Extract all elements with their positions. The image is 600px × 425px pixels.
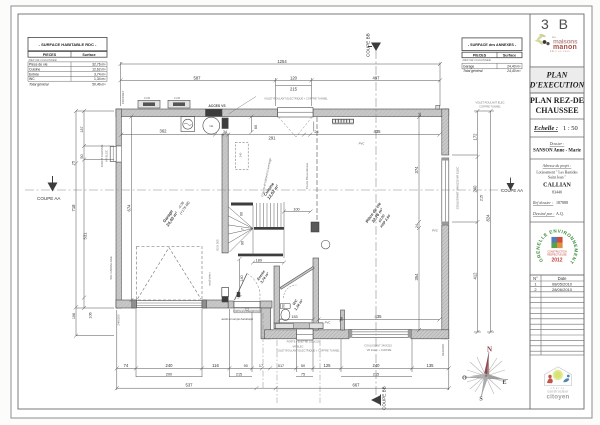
svg-text:D'EXECUTION: D'EXECUTION (529, 81, 586, 90)
svg-text:354: 354 (414, 273, 419, 281)
top wall kitchen-left section (222, 109, 278, 117)
svg-text:32,76 m²: 32,76 m² (92, 63, 106, 67)
svg-text:Pièce de vie: Pièce de vie (29, 63, 48, 67)
svg-text:Saint Jean ": Saint Jean " (548, 176, 566, 180)
svg-text:412: 412 (472, 272, 477, 280)
left wall garage window (110, 146, 121, 162)
svg-text:100X45 CHASSIS: 100X45 CHASSIS (100, 145, 104, 168)
toilet (280, 304, 290, 321)
garage door dashed leaf (137, 247, 203, 301)
svg-text:VOLET ROULANT ELEC: VOLET ROULANT ELEC (475, 101, 504, 105)
small coffre box top right wall (436, 105, 440, 109)
svg-text:PORTE ENTREE 100X215: PORTE ENTREE 100X215 (233, 311, 261, 313)
svg-text:ACCES VS: ACCES VS (208, 104, 226, 108)
top chain row3 small 215 (276, 84, 312, 86)
svg-text:24,40 m²: 24,40 m² (506, 69, 521, 73)
svg-text:VOLET ROULANT ELECTRIQUE + COF: VOLET ROULANT ELECTRIQUE + COFFRE TUNNEL (276, 349, 340, 353)
svg-text:Dossier :: Dossier : (549, 141, 565, 146)
citoyen logo (545, 367, 572, 401)
WC door swing (284, 285, 297, 298)
svg-text:PLAN: PLAN (547, 71, 569, 80)
svg-text:240: 240 (166, 363, 174, 368)
svg-text:REZ DE CHAUSSEE: REZ DE CHAUSSEE (463, 58, 492, 62)
garage-entree door leaf (222, 288, 229, 297)
svg-text:2012: 2012 (551, 258, 562, 264)
interior dim 362 + 34 (121, 134, 224, 136)
svg-text:CE: CE (209, 124, 213, 128)
piece de vie label (364, 201, 394, 232)
kitchen/stair dark bar (231, 203, 253, 206)
svg-text:VR ELEC + COFFRE: VR ELEC + COFFRE (367, 348, 392, 352)
svg-text:Surface: Surface (82, 53, 95, 57)
svg-text:50: 50 (80, 154, 84, 158)
equipment box 2 above garage (168, 100, 190, 108)
wall stub at sejour bottom (341, 310, 345, 330)
svg-text:CHAUSSEE: CHAUSSEE (535, 106, 578, 115)
svg-text:36: 36 (418, 113, 422, 117)
svg-text:bâtir en vous: bâtir en vous (550, 50, 570, 53)
svg-text:REGARD: REGARD (441, 344, 445, 356)
WC west wall (274, 266, 280, 323)
svg-text:A.Q.: A.Q. (556, 211, 564, 216)
left wall upper (116, 109, 121, 146)
entrance door opening (234, 302, 260, 308)
title block left divider (529, 14, 531, 409)
interior vertical chain x419 (418, 117, 420, 330)
svg-text:Garage: Garage (463, 64, 474, 68)
svg-text:VR ELEC: VR ELEC (105, 150, 109, 162)
svg-text:667: 667 (353, 382, 361, 387)
svg-text:COUPE BB: COUPE BB (382, 386, 387, 410)
svg-text:75: 75 (301, 372, 305, 376)
svg-text:CLIM: CLIM (144, 96, 150, 100)
svg-text:137: 137 (80, 126, 84, 132)
svg-text:COUPE AA: COUPE AA (37, 196, 61, 201)
left wall lower (116, 162, 121, 308)
svg-text:140: 140 (240, 275, 244, 281)
svg-text:1 : 50: 1 : 50 (563, 125, 578, 132)
svg-text:3,74 m²: 3,74 m² (94, 72, 106, 76)
svg-text:SANSON Anne - Marie: SANSON Anne - Marie (533, 149, 581, 154)
svg-text:718: 718 (71, 204, 76, 212)
svg-text:COFFRET: COFFRET (121, 91, 125, 104)
interior wall dark post at entry (222, 296, 228, 302)
stair mid dark bar (254, 227, 284, 230)
svg-text:Lotissement " Les Bastides: Lotissement " Les Bastides (536, 171, 578, 175)
washing machine (181, 117, 195, 132)
svg-text:106: 106 (72, 313, 76, 319)
svg-text:74: 74 (124, 363, 129, 368)
main bottom wall segment 3 (411, 330, 449, 339)
dim 435 sejour bottom (319, 319, 440, 321)
connector wall entree to main bottom (261, 308, 271, 339)
svg-text:PIECES: PIECES (473, 54, 487, 58)
coupe BB line (375, 50, 377, 396)
svg-text:362: 362 (160, 129, 168, 134)
garage bottom wall right of door (202, 300, 228, 308)
diagonal under-stair wall (280, 267, 314, 290)
svg-text:CALLIAN: CALLIAN (543, 183, 571, 189)
svg-text:citoyen: citoyen (546, 394, 569, 401)
top chain row2 (121, 79, 441, 81)
right chains (477, 111, 479, 332)
coupe AA right arrow (507, 183, 515, 191)
entrance step (234, 308, 260, 313)
svg-text:12,62 m²: 12,62 m² (92, 67, 106, 71)
right wall window (442, 158, 449, 224)
svg-text:WC: WC (29, 77, 35, 81)
svg-text:Surface: Surface (503, 54, 516, 58)
svg-text:517: 517 (278, 364, 284, 368)
svg-text:435: 435 (375, 314, 383, 319)
left chains (75, 111, 77, 336)
porte-fenetre bottom (297, 329, 314, 340)
svg-text:Poutre BA au dessus: Poutre BA au dessus (305, 162, 309, 189)
svg-text:531: 531 (83, 232, 88, 240)
dotted label bands (144, 96, 505, 353)
extension lines bottom (116, 310, 118, 390)
dim 153 wc (280, 319, 313, 321)
dim 100 stairs (284, 211, 311, 213)
svg-text:Entrée: Entrée (29, 72, 39, 76)
svg-text:REZ DE CHAUSSEE: REZ DE CHAUSSEE (29, 58, 58, 62)
main bottom wall segment 1 (265, 330, 297, 339)
stair bottom dark bar (238, 254, 283, 257)
svg-text:COULISSANT 240X215: COULISSANT 240X215 (364, 344, 392, 348)
revision table (530, 275, 584, 355)
svg-text:291: 291 (269, 136, 277, 141)
svg-text:75: 75 (72, 161, 76, 165)
top wall right section (313, 109, 449, 117)
svg-text:COFFRE TUNNEL: COFFRE TUNNEL (479, 105, 501, 109)
svg-text:PIECES: PIECES (43, 53, 57, 57)
WC cabinet fixtures (276, 324, 294, 329)
dim 189 stairs bottom (253, 262, 284, 264)
svg-text:90: 90 (282, 304, 286, 308)
coupe BB top arrow and text (371, 43, 381, 52)
svg-text:- SURFACE HABITABLE RDC -: - SURFACE HABITABLE RDC - (39, 42, 97, 47)
svg-text:17: 17 (259, 364, 263, 368)
bottom chain row3 (117, 387, 449, 389)
bottom chain row1 (117, 367, 449, 369)
svg-text:215: 215 (480, 195, 484, 201)
svg-text:N°: N° (533, 276, 538, 281)
svg-text:3 B: 3 B (541, 16, 571, 32)
svg-text:Dessiné par :: Dessiné par : (532, 211, 555, 216)
right wall above window (442, 109, 449, 155)
entree label (256, 269, 270, 285)
radiator sejour (333, 119, 354, 123)
entree front wall right of door (260, 301, 272, 308)
interior dim 291 24 435 (228, 134, 439, 136)
svg-text:28/06/2010: 28/06/2010 (552, 287, 573, 292)
svg-text:240: 240 (239, 152, 243, 157)
top chain total 1254 (121, 63, 441, 65)
coupe AA line (25, 189, 505, 191)
coupe AA left arrow (48, 183, 58, 192)
svg-text:200: 200 (166, 372, 172, 376)
svg-text:215: 215 (373, 372, 379, 376)
kitchen window top wall (278, 108, 313, 138)
svg-text:24: 24 (415, 224, 419, 228)
svg-text:Date: Date (558, 276, 568, 281)
garage door opening (132, 300, 207, 308)
entrance door swing (235, 274, 248, 301)
entree front wall left of door (228, 301, 234, 308)
svg-text:1,34 m²: 1,34 m² (94, 77, 106, 81)
svg-text:24: 24 (314, 130, 318, 134)
svg-text:N: N (487, 346, 492, 354)
svg-text:125: 125 (324, 363, 332, 368)
svg-text:Echelle :: Echelle : (533, 125, 558, 132)
svg-text:83440: 83440 (552, 190, 562, 195)
needle (484, 353, 489, 375)
svg-text:Adresse du projet :: Adresse du projet : (542, 164, 572, 168)
svg-text:435: 435 (374, 129, 382, 134)
svg-text:90: 90 (240, 212, 244, 216)
svg-text:100: 100 (293, 208, 299, 212)
svg-text:24: 24 (340, 317, 344, 321)
dim 674 garage (131, 117, 133, 301)
garage label (160, 207, 179, 228)
svg-text:CLIM: CLIM (174, 96, 180, 100)
svg-text:SOL CARRELAGE: SOL CARRELAGE (109, 256, 113, 280)
svg-text:60: 60 (254, 125, 258, 129)
svg-text:93 X 205: 93 X 205 (216, 239, 220, 251)
svg-text:90: 90 (241, 241, 245, 245)
svg-text:215: 215 (290, 87, 298, 92)
star core (479, 370, 486, 376)
leader to acces vs (229, 97, 257, 115)
svg-text:COUPE AA: COUPE AA (501, 188, 523, 193)
svg-text:RESPECTUEUSE: RESPECTUEUSE (547, 254, 567, 257)
svg-text:135: 135 (427, 363, 435, 368)
coupe BB bottom arrow and text (371, 396, 380, 405)
svg-text:674: 674 (126, 204, 131, 212)
svg-text:Total général: Total général (29, 82, 49, 86)
post sejour (311, 222, 319, 232)
logo maisons manon (535, 33, 578, 53)
grenelle stamp (535, 228, 578, 265)
svg-text:accès et rampe handicapé: accès et rampe handicapé (222, 317, 254, 321)
svg-text:E: E (502, 380, 506, 386)
WC bottom wall (274, 323, 323, 329)
right wall below window (442, 225, 449, 339)
svg-text:120: 120 (290, 76, 298, 81)
svg-text:116: 116 (212, 363, 219, 368)
svg-text:7: 7 (241, 228, 245, 230)
svg-text:PLAN REZ-DE: PLAN REZ-DE (530, 96, 584, 105)
svg-text:PVC: PVC (432, 229, 439, 233)
PVC notes (325, 142, 439, 325)
svg-text:587: 587 (194, 76, 202, 81)
beam line above (poutre) (316, 117, 318, 222)
equipment box 1 above garage (138, 100, 160, 108)
cuisine label (262, 180, 280, 200)
fridge reservation dashed (235, 142, 248, 169)
svg-text:Total général: Total général (463, 69, 483, 73)
svg-text:COULISSANT 240X215 VR ELEC: COULISSANT 240X215 VR ELEC (456, 167, 460, 210)
garage to entree door opening (222, 253, 228, 293)
svg-text:240X200: 240X200 (117, 314, 121, 326)
wc label (290, 296, 304, 312)
svg-text:Ref dossier :: Ref dossier : (532, 200, 554, 205)
svg-text:PORTE FENETRE 153X215: PORTE FENETRE 153X215 (287, 340, 320, 344)
svg-text:- SURFACE des ANNEXES -: - SURFACE des ANNEXES - (468, 43, 517, 47)
svg-text:189: 189 (256, 258, 262, 262)
svg-text:VOLET ROULANT ELECTRIQUE + COF: VOLET ROULANT ELECTRIQUE + COFFRE TUNNEL (264, 97, 328, 101)
svg-text:PVC: PVC (325, 321, 332, 325)
ceiling spot circle (321, 240, 330, 249)
dim 60 vertical kitchen (251, 117, 253, 133)
svg-text:824: 824 (485, 214, 490, 222)
svg-text:50: 50 (301, 364, 305, 368)
svg-text:Cuisine: Cuisine (29, 67, 40, 71)
dashed extension verticals below plan (262, 313, 264, 390)
water heater (203, 117, 220, 134)
svg-text:90: 90 (244, 364, 248, 368)
svg-text:08/05/2010: 08/05/2010 (552, 282, 573, 287)
interior wall garage/house (222, 134, 228, 253)
top wall ACCES VS dark section (206, 109, 222, 117)
bottom chain row2 short lines (136, 376, 202, 378)
svg-text:497: 497 (373, 76, 381, 81)
svg-text:240: 240 (472, 185, 477, 193)
svg-text:153: 153 (291, 315, 297, 319)
baie vitree bottom (349, 329, 411, 337)
svg-text:172: 172 (472, 133, 477, 141)
interior wall garage dark top (222, 118, 228, 129)
WC east wall (313, 258, 319, 330)
svg-text:240: 240 (373, 363, 381, 368)
svg-text:106: 106 (89, 312, 93, 318)
svg-text:537: 537 (186, 382, 194, 387)
svg-text:1254: 1254 (277, 59, 287, 64)
svg-text:215: 215 (236, 372, 242, 376)
rotated dimension texts (71, 113, 491, 321)
svg-text:34: 34 (223, 130, 227, 134)
svg-text:374: 374 (414, 166, 419, 174)
top wall garage section (116, 109, 206, 117)
main bottom wall segment 2 (313, 330, 349, 339)
svg-text:seuil béton: seuil béton (208, 272, 212, 286)
svg-text:24,40 m²: 24,40 m² (507, 64, 521, 68)
svg-text:O: O (462, 376, 467, 382)
svg-text:COUPE BB: COUPE BB (366, 33, 371, 57)
garage bottom wall left of door (116, 300, 137, 308)
svg-text:50,46 m²: 50,46 m² (92, 82, 106, 86)
svg-text:PVC: PVC (359, 142, 366, 146)
svg-text:VR ELEC: VR ELEC (292, 345, 303, 349)
svg-text:187888: 187888 (556, 200, 568, 205)
